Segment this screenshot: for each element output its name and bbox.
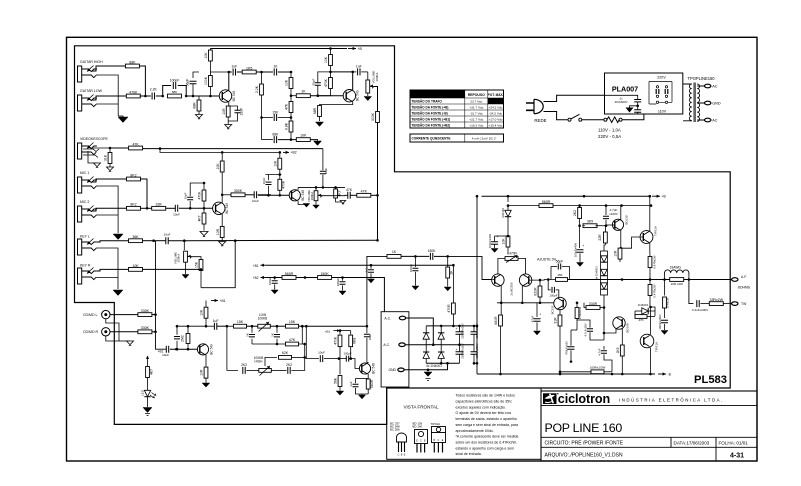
ground s2 [314, 141, 322, 145]
wire b2 row [266, 277, 283, 279]
capacitor 100uF 40V pa [491, 242, 498, 244]
svg-text:330K: 330K [141, 326, 150, 330]
svg-text:1K: 1K [273, 65, 278, 69]
resistor 10K Q5 collector [205, 301, 207, 308]
svg-text:33Rx2W: 33Rx2W [709, 298, 723, 302]
svg-text:10uF: 10uF [324, 167, 328, 174]
svg-text:+B1: +B1 [325, 329, 331, 333]
svg-text:56pF: 56pF [556, 259, 564, 263]
ground mic bias [200, 232, 208, 236]
svg-text:100uF: 100uF [268, 277, 272, 285]
bias rail tone [176, 325, 206, 327]
ground led [143, 408, 152, 413]
svg-text:2K: 2K [450, 270, 454, 275]
zobel resistor 10Rx2W [664, 280, 666, 296]
svg-text:sinal de entrada.: sinal de entrada. [456, 452, 482, 456]
ground Q2 emitter [316, 122, 324, 126]
resistor 68K [125, 64, 139, 68]
svg-text:A.C.: A.C. [384, 317, 391, 321]
capacitor 56pF s2 [315, 83, 321, 85]
wire cd grounds [106, 319, 119, 341]
wire cap to RC network [156, 95, 163, 97]
svg-text:PLA007: PLA007 [612, 85, 638, 94]
resistor 10R x2W parallel [670, 278, 684, 282]
svg-text:330K: 330K [141, 309, 150, 313]
wire base to Q2 [310, 95, 343, 97]
svg-text:47K: 47K [132, 142, 139, 146]
TO-220 package drawing [432, 427, 446, 433]
wire q11 collector up [649, 196, 651, 231]
svg-text:22uF: 22uF [240, 108, 244, 116]
ciclotron logo icon [543, 393, 557, 404]
svg-text:16pF: 16pF [184, 192, 188, 199]
wire guitar jacks ground bus [96, 75, 118, 116]
svg-text:0.47Rx2W: 0.47Rx2W [652, 284, 656, 297]
terminal GND [705, 101, 711, 105]
svg-text:BC337: BC337 [551, 305, 555, 314]
capacitor 3.3uFx100V tw [697, 300, 699, 307]
svg-text:10Rx2W: 10Rx2W [666, 297, 670, 308]
wire Q8 base right [529, 279, 556, 282]
base line stage2 [291, 95, 297, 97]
ground Q5 emitter [202, 383, 210, 387]
wire switch to fuse [582, 119, 604, 121]
svg-text:INDÚSTRIA ELETRÔNICA LTDA.: INDÚSTRIA ELETRÔNICA LTDA. [619, 398, 724, 403]
resistor 10R bd139 [620, 230, 622, 248]
fuse resistive element [604, 118, 607, 121]
jack GUITAR LOW [78, 95, 82, 111]
wire 15K to LOW pot [247, 325, 258, 327]
wire cap to node [434, 255, 448, 257]
wire tone-out to feedback line [367, 256, 387, 326]
svg-text:10K: 10K [324, 56, 328, 63]
svg-text:10R: 10R [222, 108, 226, 115]
wire cap to stage2 node [278, 71, 291, 73]
svg-text:MIC 2: MIC 2 [80, 200, 89, 204]
wire keyl to 36K [97, 241, 129, 242]
wire 1uF to 1K5 [237, 71, 243, 73]
capacitor 150K fb [430, 253, 432, 260]
wire video jack down [88, 151, 97, 163]
wire plus rail into amp [476, 196, 478, 374]
bottom rail s2 [262, 139, 273, 141]
tweeter branch [689, 280, 694, 304]
jack KEY R [78, 268, 82, 284]
notes box [387, 388, 541, 459]
transistor Q13 TIP31A lower [640, 334, 654, 348]
capacitor 16pF mic [189, 201, 191, 208]
svg-text:10uF: 10uF [318, 350, 325, 354]
wire b1 row [266, 264, 454, 266]
resistor 33Rx2W tw [700, 303, 709, 305]
svg-text:31K: 31K [104, 154, 108, 161]
capacitor 22uF bypass [235, 110, 241, 112]
svg-text:AC: AC [712, 84, 718, 88]
wire LOW to 15K b [270, 325, 285, 327]
wire Q4 emitter [298, 201, 305, 205]
jack MIC 2 [78, 206, 82, 222]
resistor 470R supply [452, 265, 454, 303]
svg-text:16pF: 16pF [262, 177, 266, 184]
svg-text:excetos aqueles com indicação.: excetos aqueles com indicação. [456, 405, 506, 409]
svg-text:+15.4 Vdc: +15.4 Vdc [489, 124, 503, 128]
diode bridge D1 [423, 333, 429, 339]
svg-text:TENSÃO DA FONTE (+B2): TENSÃO DA FONTE (+B2) [412, 123, 451, 128]
svg-text:TW: TW [741, 302, 747, 306]
capacitor 10uF q6 collector [366, 326, 368, 333]
svg-text:+B1: +B1 [220, 299, 226, 303]
wire keyr bus [143, 268, 202, 270]
capacitor 16pF tone bias [176, 326, 178, 335]
resistor 300K master [376, 112, 380, 123]
ground guitar jacks [118, 117, 128, 123]
svg-text:10K: 10K [502, 238, 506, 245]
svg-text:+19.3 Vdc: +19.3 Vdc [469, 124, 483, 128]
transistor Q3 BC549 [213, 202, 225, 214]
resistor 1K base [296, 94, 310, 98]
svg-text:100uF: 100uF [336, 278, 340, 286]
resistor 560R bias pa [507, 196, 509, 202]
svg-text:68K: 68K [272, 132, 279, 136]
ground key pot [185, 262, 187, 274]
arrow -B poweramp [658, 373, 666, 375]
svg-text:470R: 470R [509, 252, 517, 256]
svg-text:110V: 110V [658, 110, 667, 114]
svg-text:-31.7 Vdc: -31.7 Vdc [470, 112, 484, 116]
wire key r join [201, 241, 235, 288]
table: voltages table frame [410, 90, 504, 128]
svg-text:620R: 620R [534, 287, 538, 296]
resistor 0.47Rx2W upper [649, 251, 651, 257]
svg-text:C: C [398, 454, 400, 457]
svg-text:-24.2 Vdc: -24.2 Vdc [489, 112, 503, 116]
svg-text:10K: 10K [273, 160, 277, 167]
capacitor 470uFx16V pa2 [568, 347, 575, 349]
wire Q2 collector [331, 72, 353, 90]
svg-text:AC: AC [712, 118, 718, 122]
wire RC to bias node [162, 95, 164, 97]
svg-text:3K3x600V: 3K3x600V [615, 100, 628, 104]
terminal AC bottom [705, 118, 711, 122]
resistor 22R pa [604, 232, 608, 243]
capacitor 4.7uFx16V pa2 [587, 329, 593, 331]
resistor 31R pa2 [559, 309, 561, 315]
ground key jacks [113, 290, 123, 296]
svg-text:O ajuste de 0V deverá ser f: O ajuste de 0V deverá ser feito nos [456, 411, 512, 415]
svg-text:15K: 15K [195, 261, 199, 268]
wire keyr to 10K [97, 269, 129, 271]
svg-text:2M2: 2M2 [181, 335, 185, 342]
svg-text:+B: +B [358, 47, 363, 51]
transformer TPOPLINE160 [683, 83, 705, 123]
svg-text:10K: 10K [200, 309, 204, 316]
svg-text:470K: 470K [129, 90, 138, 94]
svg-text:470uFx16V: 470uFx16V [564, 341, 568, 355]
TO-92 package drawing [397, 433, 407, 442]
resistor 330K cd r [138, 330, 152, 334]
svg-text:TIP31A: TIP31A [654, 226, 658, 236]
resistor 270Rx1W pa2 [575, 308, 579, 319]
resistor 2M2 tone bias [187, 326, 189, 333]
svg-text:KEY R: KEY R [80, 264, 91, 268]
capacitor 1K interstage [274, 69, 276, 76]
transistor Q8 BC556 [519, 274, 531, 286]
svg-text:220V - 0,5A: 220V - 0,5A [598, 134, 621, 139]
svg-text:1uF: 1uF [356, 64, 362, 68]
svg-text:10R x2W: 10R x2W [671, 282, 684, 286]
svg-text:PL583: PL583 [694, 374, 727, 386]
wire 1K to cap [401, 255, 429, 257]
trimpot 470R AJUSTE 0V [505, 257, 518, 261]
resistor 10K pa bias [506, 236, 510, 247]
capacitor 2K2 high a [243, 367, 245, 374]
svg-text:10uF: 10uF [162, 353, 169, 357]
capacitor 1uF coupling g1 [233, 69, 235, 76]
svg-text:BC 549: BC 549 [209, 344, 213, 355]
svg-text:1N4001: 1N4001 [638, 303, 649, 307]
svg-text:2K2: 2K2 [241, 363, 247, 367]
svg-text:62K: 62K [282, 351, 289, 355]
wire tip31 upper [620, 206, 622, 220]
svg-text:100uFx40V: 100uFx40V [573, 243, 577, 257]
svg-text:560R: 560R [542, 200, 551, 204]
svg-text:TIP31A: TIP31A [655, 342, 659, 352]
resistor 15K key [191, 257, 202, 260]
resistor 330K cd l [138, 313, 152, 317]
wire mic2 to 8K2 [92, 208, 127, 211]
svg-text:110V - 1,0A: 110V - 1,0A [598, 128, 621, 133]
resistor 1K5 [242, 70, 256, 74]
resistor 47K tone mid [252, 343, 286, 345]
svg-text:ARQUIVO:./POPLINE160_V1.DSN: ARQUIVO:./POPLINE160_V1.DSN [545, 453, 623, 459]
mains switch [568, 118, 571, 121]
svg-text:2K: 2K [245, 333, 249, 337]
svg-text:300KA: 300KA [310, 192, 314, 201]
resistor 47K pa2 [635, 315, 647, 319]
svg-text:19AWG: 19AWG [670, 265, 682, 269]
resistor 10K mic collector [221, 152, 223, 161]
schematic boundary polygon [75, 46, 731, 425]
svg-text:BC 548: BC 548 [371, 363, 375, 374]
wire 560R to 150K [296, 277, 318, 279]
mains plug symbol [526, 103, 534, 110]
terminal TW [732, 302, 738, 306]
resistor 68R emitter g1 [198, 96, 200, 101]
wire low out [299, 325, 307, 327]
svg-text:1K: 1K [301, 90, 306, 94]
svg-text:47K: 47K [361, 189, 368, 193]
outer border frame [67, 37, 758, 461]
svg-text:+31.7 Vdc: +31.7 Vdc [469, 106, 483, 110]
svg-text:470R: 470R [447, 304, 451, 313]
svg-text:4 mA ( 2mV DC )*: 4 mA ( 2mV DC )* [472, 137, 497, 141]
svg-text:aproximadamente 0Vdc.: aproximadamente 0Vdc. [456, 429, 494, 433]
svg-text:560R: 560R [370, 379, 374, 388]
svg-text:1N4148: 1N4148 [501, 208, 505, 218]
wire cap68K to 10K [278, 139, 297, 141]
wire led to ground [147, 397, 149, 407]
ground 68R [196, 115, 203, 119]
svg-text:A.F.: A.F. [741, 275, 747, 279]
title block frame [541, 391, 757, 461]
capacitor 10uF tone out [320, 355, 322, 362]
svg-text:BC 556: BC 556 [390, 428, 400, 432]
table: black cell TRAFO/POT.MAX [488, 98, 504, 104]
wire input to Q7 base [492, 279, 494, 282]
resistor 1K fb [387, 255, 401, 259]
svg-text:capacitores eletrolíticos sã: capacitores eletrolíticos são de 35V, [456, 400, 513, 404]
svg-text:300KA: 300KA [177, 254, 181, 263]
capacitor 10uF feed [322, 149, 324, 171]
svg-text:LED: LED [141, 389, 145, 396]
diode bridge D2 [438, 333, 444, 339]
resistor 2K2 vas [579, 206, 581, 208]
ground mic emitter [219, 242, 226, 246]
diode bridge D4 [438, 352, 444, 358]
svg-text:2.2K: 2.2K [150, 88, 158, 92]
arrow +B guitar [348, 48, 356, 50]
wire fuse to PLA007 bottom [622, 114, 644, 120]
resistor 56K q6 [339, 359, 341, 375]
resistor 8K2 mic1 [127, 177, 141, 181]
svg-text:+B2: +B2 [253, 276, 259, 280]
svg-text:470K: 470K [324, 78, 328, 87]
svg-text:56pF: 56pF [312, 78, 316, 85]
transistor Q4 BC548 [289, 190, 300, 201]
wire tone out [306, 325, 367, 327]
ground Q1 emitter [225, 125, 232, 129]
svg-text:TENSÃO DA FONTE (+B1): TENSÃO DA FONTE (+B1) [412, 117, 451, 122]
voltage selector contacts [649, 82, 672, 105]
capacitor 47uF pa [536, 303, 538, 317]
svg-text:4-31: 4-31 [730, 453, 744, 460]
capacitor 100nF 250V neg [471, 352, 478, 354]
diode 1N4148 pa [505, 210, 511, 216]
svg-text:470K: 470K [198, 191, 202, 200]
svg-text:+: + [456, 327, 458, 331]
rca jack CD/MD R [102, 328, 110, 336]
transistor Q6 BC548 [359, 363, 370, 374]
arrow +B1 tone [211, 300, 218, 302]
svg-text:10uF: 10uF [252, 199, 259, 203]
wire 10uF to base node [179, 207, 214, 209]
wire ac2 [405, 344, 426, 346]
svg-text:4x 1N4001: 4x 1N4001 [426, 364, 442, 368]
rca jack CD/MD L [102, 310, 110, 318]
svg-text:BC 549: BC 549 [356, 90, 360, 101]
svg-text:REPOUSO: REPOUSO [468, 93, 485, 97]
wire video out +B2 rails [143, 148, 323, 150]
svg-text:100Rx1/2W: 100Rx1/2W [590, 365, 606, 369]
wire mic collector out [222, 194, 231, 196]
wire cd bus join [152, 314, 156, 316]
svg-text:470K: 470K [334, 336, 338, 345]
svg-text:ciclotron: ciclotron [558, 392, 610, 406]
svg-text:15K: 15K [557, 273, 562, 277]
wire Q1 emitter [228, 102, 230, 106]
svg-text:68R: 68R [313, 107, 317, 114]
resistor 4K7 mic [203, 208, 205, 213]
svg-text:+: + [456, 348, 458, 352]
jack GUITAR HIGH [78, 66, 82, 82]
resistor 8K2 mic2 [127, 206, 141, 210]
collector rail bc556 [500, 286, 502, 303]
svg-text:2K2: 2K2 [286, 363, 292, 367]
svg-text:4.7uFx16V: 4.7uFx16V [583, 323, 587, 336]
svg-text:100pF: 100pF [170, 79, 180, 83]
svg-text:KEY L: KEY L [80, 235, 90, 239]
resistor 15K fb pa [556, 278, 568, 282]
wire 1K5 to cap 1K [256, 71, 273, 73]
resistor 10R Q5 emitter [205, 355, 207, 367]
svg-text:+: + [582, 244, 584, 248]
capacitor 100uF supply b [342, 278, 344, 281]
transistor Q9 BC337 vas [554, 297, 566, 309]
resistor 10K Q2 collector load [330, 49, 332, 55]
capacitor 15K s2 [274, 114, 276, 121]
svg-text:terminais de saída, estando: terminais de saída, estando o aparelho [456, 417, 517, 421]
capacitor 68K s2 bottom [274, 136, 276, 143]
wire to Q4 base [258, 194, 292, 196]
svg-text:+21.7 Vdc: +21.7 Vdc [469, 118, 483, 122]
svg-text:270Rx1W: 270Rx1W [578, 307, 582, 320]
svg-text:100KA: 100KA [375, 72, 379, 81]
capacitor 2K low a [251, 326, 253, 333]
capacitor 4.7uF pa3 [601, 351, 607, 353]
svg-text:sobre um dos resistores de: sobre um dos resistores de 0.47Rx2W, [456, 441, 517, 445]
svg-text:CD/MD L: CD/MD L [83, 313, 97, 317]
resistor 36K key [129, 239, 143, 243]
ground arrow in PLA007 [630, 106, 638, 108]
capacitor 1uF q6 [353, 384, 359, 386]
svg-text:1K5: 1K5 [246, 66, 252, 70]
svg-text:10uF: 10uF [173, 213, 180, 217]
svg-text:300K: 300K [234, 189, 243, 193]
svg-text:+: + [539, 313, 541, 317]
wire fb to base [448, 256, 493, 279]
svg-text:+B1: +B1 [253, 264, 259, 268]
wire 8K2 to junction [141, 179, 148, 208]
capacitor 100pF fb pa [547, 278, 550, 281]
capacitor 47K mic out [348, 192, 350, 199]
svg-text:15K: 15K [289, 320, 296, 324]
+B rail guitar [210, 48, 347, 50]
svg-text:2x BC556: 2x BC556 [509, 282, 513, 296]
wire key jacks ground [96, 248, 118, 289]
wire mic1 to 8K2 [92, 179, 127, 182]
svg-text:680R: 680R [494, 316, 498, 325]
wire bd139 base [606, 224, 615, 226]
key bus [183, 239, 186, 242]
wire guitar-low jack to R 470K [92, 96, 126, 100]
svg-text:CD/MD R: CD/MD R [83, 330, 98, 334]
svg-text:15K: 15K [272, 110, 279, 114]
wire mic jacks ground [96, 186, 118, 233]
svg-text:x100V: x100V [609, 212, 618, 216]
ground 31K [107, 167, 114, 171]
svg-text:300K: 300K [371, 112, 375, 121]
junction tone split [226, 325, 229, 328]
capacitor 100pF [173, 82, 175, 89]
svg-text:VIDEOKESCOPE: VIDEOKESCOPE [80, 137, 108, 141]
svg-text:1K5: 1K5 [616, 347, 620, 353]
wire tone out down [306, 326, 319, 358]
transistor Q11 TIP31A upper [640, 231, 653, 244]
potentiometer LOW 100KB [258, 324, 271, 328]
terminal AC top [705, 84, 711, 88]
svg-text:68K: 68K [172, 90, 177, 94]
capacitor 56pF [190, 81, 197, 83]
